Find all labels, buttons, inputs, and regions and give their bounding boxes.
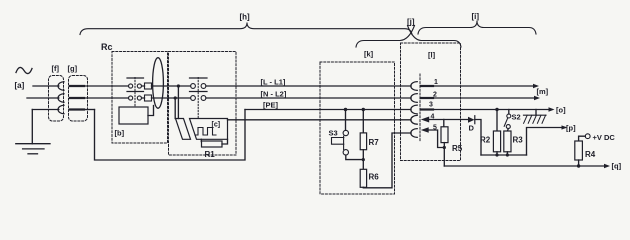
svg-text:[k]: [k] [364, 50, 374, 59]
connector plug box [g] [69, 76, 88, 122]
wire terminal to R4 [579, 136, 586, 141]
wire R3 to bar [506, 152, 508, 155]
junction node R4/rail [577, 164, 580, 167]
svg-text:[i]: [i] [472, 12, 480, 21]
junction node S3/R7/R6 [362, 158, 365, 161]
svg-text:[L - L1]: [L - L1] [261, 78, 286, 87]
svg-text:[o]: [o] [556, 106, 566, 115]
svg-text:R1: R1 [205, 150, 216, 159]
wire tap N down to [c] [174, 98, 176, 119]
svg-text:R2: R2 [480, 136, 491, 145]
divider bottom bar [481, 154, 527, 156]
test block box with [c] [169, 52, 237, 156]
socket contact pin5 [411, 129, 417, 138]
contact 2 bridge bars [190, 78, 208, 92]
wire S2 to R3 [506, 129, 509, 131]
wire pin5 jog to R5 leg [429, 130, 445, 148]
plug pin 2 [421, 97, 433, 99]
socket contact pin2 [411, 94, 417, 103]
wire S3 to R7/R6 node [346, 155, 364, 160]
electronic trip unit [c] left wedge [176, 119, 191, 140]
test circuit box [k] [320, 62, 395, 194]
contact Rc row2 circles [129, 96, 133, 100]
junction node on L for [c] supply [177, 84, 180, 87]
wire PE down to S3 [345, 110, 347, 131]
wire L pin1 to [m] [433, 85, 534, 87]
CT toroid core [153, 58, 164, 109]
arrow [p] [562, 125, 568, 129]
resistor R5 [441, 127, 448, 143]
svg-text:[b]: [b] [115, 129, 125, 138]
ground [16, 144, 50, 154]
arrow [m] row1 [533, 84, 539, 88]
junction node PE to R7 [362, 108, 365, 111]
svg-text:[m]: [m] [537, 87, 549, 96]
svg-text:[p]: [p] [566, 124, 576, 133]
svg-text:R6: R6 [369, 173, 380, 182]
wire PE drop to ground [31, 110, 33, 144]
svg-text:[h]: [h] [240, 13, 251, 22]
switch S2 lever [504, 118, 508, 127]
junction node PE to R2 [495, 108, 498, 111]
socket contact pin4 [411, 115, 417, 124]
R5 tap from pin4 wire [443, 120, 445, 127]
RCD block box Rc [112, 52, 168, 144]
switch S3 bottom contact [343, 150, 348, 155]
svg-text:R5: R5 [452, 144, 463, 153]
wire L row1 g to Rc contact [81, 85, 129, 87]
plug pin g row3 [70, 108, 84, 110]
svg-text:[l]: [l] [428, 51, 436, 60]
svg-text:1: 1 [434, 79, 438, 86]
connector mating line (dashed) [419, 74, 421, 142]
svg-text:R4: R4 [585, 150, 596, 159]
wire diode to divider [475, 120, 481, 156]
resistor R2 [493, 131, 500, 152]
junction node R2/bar [495, 153, 498, 156]
contact 2 row2 circles [191, 96, 196, 101]
R1 left stub [200, 139, 202, 141]
arrow [m] row2 [534, 96, 540, 100]
socket contact f row2 [58, 94, 64, 102]
plug pin g row2 [70, 97, 84, 99]
resistor R1 [202, 141, 223, 147]
wire bar up to [p] [527, 128, 566, 156]
R1 right stub [222, 139, 228, 144]
svg-text:R3: R3 [513, 136, 524, 145]
switch S3 button actuator [332, 136, 344, 149]
resistor R4 [575, 141, 583, 160]
wire pin4 to diode [429, 119, 468, 121]
junction node R5/pin5 [443, 146, 446, 149]
svg-text:S2: S2 [512, 113, 521, 122]
wire R4 to rail [578, 160, 580, 166]
+V DC terminal [585, 134, 590, 139]
resistor R3 [504, 131, 511, 152]
plug pin 3 [421, 108, 433, 110]
plug pin g row1 [70, 85, 84, 87]
wire L row1 left segment [33, 85, 59, 87]
switch S3 top contact [343, 130, 348, 135]
svg-text:[N - L2]: [N - L2] [261, 90, 287, 99]
wire relay to CT secondary [148, 106, 154, 116]
wire PE row3 left segment [32, 109, 59, 111]
switch S2 stub [508, 110, 510, 115]
svg-text:[j]: [j] [407, 18, 415, 27]
contact 2 row1 circles [191, 84, 196, 89]
arrow [q] [604, 164, 610, 168]
wire test line [c] to pin4 [228, 119, 412, 121]
svg-text:[a]: [a] [15, 81, 25, 90]
square wave glyph [195, 128, 216, 136]
diode D [468, 117, 475, 123]
wire PE pin3 to [o] [433, 109, 549, 111]
brace [i] [418, 21, 536, 34]
brace [j] [356, 26, 461, 48]
junction node PE to S3 [344, 108, 347, 111]
wire PE down to R2 [496, 110, 498, 132]
electronic trip unit [c] body [190, 119, 228, 140]
svg-text:[q]: [q] [612, 162, 622, 171]
svg-text:S3: S3 [329, 129, 338, 138]
brace [h] [80, 23, 412, 35]
wire N row2 g to Rc contact [81, 97, 129, 99]
resistor R6 [360, 169, 366, 187]
plug pin 1 [421, 85, 433, 87]
contact Rc row1 circles [129, 84, 133, 88]
junction node R3/bar [506, 153, 509, 156]
svg-text:D: D [469, 124, 475, 133]
AC source [a] sine symbol [16, 67, 32, 73]
svg-text:Rc: Rc [101, 42, 113, 52]
wire N pin2 to [m] [433, 97, 535, 99]
socket contact pin3 [411, 105, 417, 114]
pin 4 arrow [421, 117, 429, 123]
svg-text:[PE]: [PE] [263, 101, 279, 110]
socket contact pin1 [411, 82, 417, 91]
contact Rc bridge bars [127, 78, 144, 92]
svg-text:+V DC: +V DC [593, 133, 616, 142]
svg-text:[f]: [f] [52, 64, 60, 73]
wire PE down to R7 [362, 110, 364, 133]
wire tap L down to [c] [177, 86, 179, 119]
resistor R7 [360, 133, 366, 150]
trip relay coil [b] [119, 107, 148, 124]
switch S2 bottom contact [506, 125, 510, 129]
pin 5 arrow [421, 127, 429, 133]
wire R6 to pin5 loop [363, 133, 411, 188]
wire PE row3 right run [245, 109, 411, 111]
svg-text:[g]: [g] [68, 64, 78, 73]
wire L row1 through RCD [142, 85, 412, 87]
bottom rail to [q] [444, 165, 604, 167]
junction node on N for [c] supply [174, 96, 177, 99]
wire N row2 through RCD [142, 97, 412, 99]
wire R2 to bar [496, 152, 498, 155]
measuring plug box [l] [401, 43, 461, 161]
wire R7 to R6 [362, 150, 364, 170]
wire N row2 left segment [27, 97, 59, 99]
arrow [o] [549, 107, 555, 111]
earth symbol on PE [535, 110, 537, 116]
CT primary winding row1 [145, 83, 152, 89]
contact 2 linkage (dotted) [197, 78, 199, 118]
socket contact f row1 [58, 82, 64, 90]
switch S2 top contact [507, 114, 511, 118]
svg-text:3: 3 [429, 102, 433, 109]
socket contact f row3 [58, 105, 64, 113]
wire PE row3 g exit [81, 109, 95, 111]
CT primary winding row2 [145, 95, 152, 101]
connector socket box [f] [49, 76, 64, 122]
wire R5 to bottom rail [443, 143, 445, 166]
wire PE bypass under RCD [95, 110, 246, 161]
svg-text:R7: R7 [369, 138, 380, 147]
contact Rc linkage (dotted) [134, 78, 136, 108]
